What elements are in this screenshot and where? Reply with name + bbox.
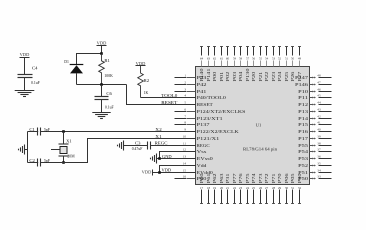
svg-text:58: 58 xyxy=(239,57,243,61)
svg-text:RESET: RESET xyxy=(161,100,178,105)
svg-text:P40/TOOL0: P40/TOOL0 xyxy=(197,95,226,100)
capacitor C2 5pF (series in X1 rail) xyxy=(29,159,50,167)
svg-text:51: 51 xyxy=(285,57,289,61)
svg-text:C3: C3 xyxy=(135,142,141,146)
svg-text:Vss: Vss xyxy=(197,149,207,154)
svg-text:25: 25 xyxy=(252,186,256,190)
svg-text:49: 49 xyxy=(298,57,302,61)
svg-text:0.1uF: 0.1uF xyxy=(31,81,40,85)
svg-text:EVss0: EVss0 xyxy=(197,156,213,161)
svg-text:52: 52 xyxy=(278,57,282,61)
wire GND net to IC pin 13 xyxy=(157,158,196,160)
wire X2 rail to IC pin 9 xyxy=(28,131,196,133)
unconnected net stubs at IC left pins xyxy=(175,78,187,179)
svg-text:C6: C6 xyxy=(106,92,112,96)
svg-text:28: 28 xyxy=(272,186,276,190)
svg-text:P10: P10 xyxy=(298,89,308,94)
svg-text:P62: P62 xyxy=(212,173,217,183)
IC U1 top pins 49-64: stubs, numbers, names, net stubs xyxy=(199,47,302,82)
svg-text:64: 64 xyxy=(200,57,204,61)
svg-text:P122/X2/EXCLK: P122/X2/EXCLK xyxy=(197,129,239,134)
svg-text:P21: P21 xyxy=(258,72,263,82)
junction crystal top / X2 rail xyxy=(62,130,65,133)
wire VDD down to R1/D1 node xyxy=(101,46,103,54)
svg-text:P123/XT1: P123/XT1 xyxy=(197,116,223,121)
svg-text:61: 61 xyxy=(220,57,224,61)
svg-text:100K: 100K xyxy=(104,74,113,78)
svg-text:GND: GND xyxy=(162,154,172,159)
wire node to diode D1 top xyxy=(77,54,102,65)
svg-text:P04: P04 xyxy=(238,70,243,81)
wire RESET net to IC pin 5 xyxy=(127,85,196,105)
svg-text:57: 57 xyxy=(246,57,250,61)
svg-text:P130: P130 xyxy=(245,69,250,82)
svg-text:REGC: REGC xyxy=(155,141,168,146)
svg-text:P24: P24 xyxy=(277,70,282,81)
svg-text:18: 18 xyxy=(207,186,211,190)
svg-text:P31: P31 xyxy=(225,173,230,183)
power symbol VDD (R2 branch) xyxy=(136,61,146,66)
svg-text:P71: P71 xyxy=(271,173,276,183)
svg-text:R2: R2 xyxy=(144,79,150,83)
svg-text:P03: P03 xyxy=(232,72,237,82)
svg-text:R1: R1 xyxy=(104,59,110,63)
svg-text:P22: P22 xyxy=(264,72,269,82)
svg-text:P72: P72 xyxy=(264,173,269,183)
svg-text:P75: P75 xyxy=(245,173,250,183)
power symbol VDD (C4 branch) xyxy=(20,52,30,58)
svg-text:P76: P76 xyxy=(238,173,243,183)
svg-text:20: 20 xyxy=(220,186,224,190)
svg-text:50: 50 xyxy=(291,57,295,61)
svg-text:P146: P146 xyxy=(295,82,308,87)
svg-text:P15: P15 xyxy=(298,122,308,127)
svg-text:P41: P41 xyxy=(197,89,207,94)
wire GND jog to IC pin 12 xyxy=(160,152,196,159)
wire VDD jog to IC pin 14 xyxy=(160,166,196,173)
svg-text:P55: P55 xyxy=(298,143,308,148)
capacitor C4 0.1uF xyxy=(18,66,40,85)
wire ground to C3 xyxy=(124,145,148,147)
wire node to C6 xyxy=(101,85,103,97)
svg-text:54: 54 xyxy=(265,57,269,61)
svg-text:P02: P02 xyxy=(225,72,230,82)
svg-text:P77: P77 xyxy=(232,173,237,183)
svg-text:1K: 1K xyxy=(144,91,149,95)
svg-text:P17: P17 xyxy=(298,136,308,141)
svg-text:P61: P61 xyxy=(206,173,211,183)
svg-text:Vdd: Vdd xyxy=(197,163,208,168)
svg-text:P13: P13 xyxy=(298,109,308,114)
svg-text:31: 31 xyxy=(291,186,295,190)
svg-text:29: 29 xyxy=(278,186,282,190)
svg-text:D1: D1 xyxy=(64,60,69,64)
wire vertical bus joining rails xyxy=(27,132,29,163)
svg-text:P70: P70 xyxy=(277,173,282,183)
wire TOOL0 net to IC pin 4 xyxy=(141,97,196,99)
svg-text:20M: 20M xyxy=(67,155,75,159)
svg-text:P54: P54 xyxy=(298,149,309,154)
svg-text:P63: P63 xyxy=(219,173,224,183)
svg-text:21: 21 xyxy=(226,186,230,190)
ground symbol for Vss/EVss0 (sideways) xyxy=(151,154,157,164)
svg-text:55: 55 xyxy=(259,57,263,61)
IC U1 bottom pins 17-32: numbers, names, net stubs xyxy=(199,172,302,203)
svg-text:30: 30 xyxy=(285,186,289,190)
wire bottom node D1-R1 to RESET corner xyxy=(77,84,127,86)
svg-text:VDD: VDD xyxy=(162,168,172,173)
svg-text:P23: P23 xyxy=(271,72,276,82)
svg-text:U1: U1 xyxy=(256,123,261,128)
svg-text:P30: P30 xyxy=(297,173,302,183)
svg-text:0.47uF: 0.47uF xyxy=(132,147,143,151)
svg-text:27: 27 xyxy=(265,186,269,190)
svg-text:P12: P12 xyxy=(298,102,308,107)
svg-text:23: 23 xyxy=(239,186,243,190)
svg-text:P53: P53 xyxy=(298,156,308,161)
crystal X1 20M xyxy=(51,132,75,163)
svg-text:59: 59 xyxy=(233,57,237,61)
svg-text:62: 62 xyxy=(213,57,217,61)
svg-text:P121/X1: P121/X1 xyxy=(197,136,220,141)
svg-text:32: 32 xyxy=(298,186,302,190)
svg-text:5pF: 5pF xyxy=(44,128,50,132)
ground symbol below C4 xyxy=(15,91,35,97)
svg-text:P27: P27 xyxy=(297,72,302,82)
svg-text:P06: P06 xyxy=(284,173,289,183)
svg-text:63: 63 xyxy=(207,57,211,61)
IC U1 body (microcontroller) xyxy=(196,67,310,185)
svg-text:VDD: VDD xyxy=(97,41,107,46)
svg-text:60: 60 xyxy=(226,57,230,61)
svg-text:P00: P00 xyxy=(212,72,217,82)
svg-text:P42: P42 xyxy=(197,82,207,87)
svg-text:P124/XT2/EXCLKS: P124/XT2/EXCLKS xyxy=(197,109,247,114)
wire C6 to ground xyxy=(101,100,103,113)
IC U1 right pins 33-48: stubs, x-marks, numbers, names, net stubs xyxy=(295,74,332,181)
resistor R2 1K xyxy=(138,66,150,98)
wire REGC net to IC pin 11 xyxy=(151,145,196,147)
svg-text:24: 24 xyxy=(246,186,250,190)
junction at VDD/R1/D1 xyxy=(100,52,103,55)
svg-text:P11: P11 xyxy=(298,95,308,100)
svg-text:P137: P137 xyxy=(197,122,210,127)
wire VDD to C4 xyxy=(24,58,26,75)
svg-text:P60: P60 xyxy=(199,173,204,183)
svg-text:56: 56 xyxy=(252,57,256,61)
junction at R1/C6/RESET node xyxy=(100,83,103,86)
svg-text:X1: X1 xyxy=(155,134,161,139)
junction crystal bottom / X1 rail xyxy=(62,161,65,164)
svg-text:P05: P05 xyxy=(290,173,295,183)
svg-text:22: 22 xyxy=(233,186,237,190)
svg-text:0.1uF: 0.1uF xyxy=(105,106,114,110)
svg-text:P16: P16 xyxy=(298,129,308,134)
svg-text:17: 17 xyxy=(200,186,204,190)
diode D1 (cathode up) xyxy=(64,60,83,73)
svg-text:RL78/G14 64 pin: RL78/G14 64 pin xyxy=(243,147,277,151)
wire ground to crystal bus xyxy=(25,149,28,151)
svg-text:P26: P26 xyxy=(290,72,295,82)
svg-text:VDD: VDD xyxy=(142,170,152,175)
svg-text:53: 53 xyxy=(272,57,276,61)
wire C4 to ground xyxy=(24,78,26,91)
capacitor C1 5pF (series in X2 rail) xyxy=(29,128,50,136)
svg-text:P74: P74 xyxy=(251,172,256,183)
wire D1 anode to bottom node xyxy=(76,73,78,84)
junction GND net xyxy=(158,157,161,160)
svg-text:P25: P25 xyxy=(284,72,289,82)
svg-text:5pF: 5pF xyxy=(44,159,50,163)
svg-text:RESET: RESET xyxy=(197,102,214,107)
ground symbol left of crystal (sideways) xyxy=(19,145,25,155)
svg-text:P20: P20 xyxy=(251,72,256,82)
resistor R1 100K xyxy=(99,54,113,85)
svg-text:VDD: VDD xyxy=(20,52,30,57)
capacitor C3 0.47uF (series in REGC net) xyxy=(132,142,151,152)
junction VDD net xyxy=(158,171,161,174)
svg-text:TOOL0: TOOL0 xyxy=(161,93,177,98)
power symbol VDD (sideways, Vdd/EVdd0) xyxy=(142,170,153,176)
svg-text:P140: P140 xyxy=(199,69,204,82)
svg-text:C4: C4 xyxy=(32,66,38,70)
svg-text:P14: P14 xyxy=(298,116,309,121)
svg-text:X2: X2 xyxy=(155,127,161,132)
power symbol VDD (reset branch) xyxy=(97,41,107,46)
ground symbol below C6 xyxy=(92,113,110,119)
svg-text:P52: P52 xyxy=(298,163,308,168)
svg-text:P73: P73 xyxy=(258,173,263,183)
IC U1 left pins 1-16: stubs, numbers, names xyxy=(183,74,247,181)
svg-text:C2: C2 xyxy=(29,159,35,163)
svg-text:19: 19 xyxy=(213,186,217,190)
capacitor C6 0.1uF xyxy=(95,92,114,109)
svg-text:C1: C1 xyxy=(29,128,35,132)
wire X1 rail with riser to IC pin 10 xyxy=(28,139,196,163)
svg-text:REGC: REGC xyxy=(197,143,210,148)
svg-text:P141: P141 xyxy=(206,69,211,82)
svg-text:P01: P01 xyxy=(219,72,224,82)
wire VDD net to IC pin 15 xyxy=(153,172,196,174)
svg-text:X1: X1 xyxy=(66,140,72,144)
svg-text:26: 26 xyxy=(259,186,263,190)
ground symbol left of C3 (sideways) xyxy=(118,141,124,151)
